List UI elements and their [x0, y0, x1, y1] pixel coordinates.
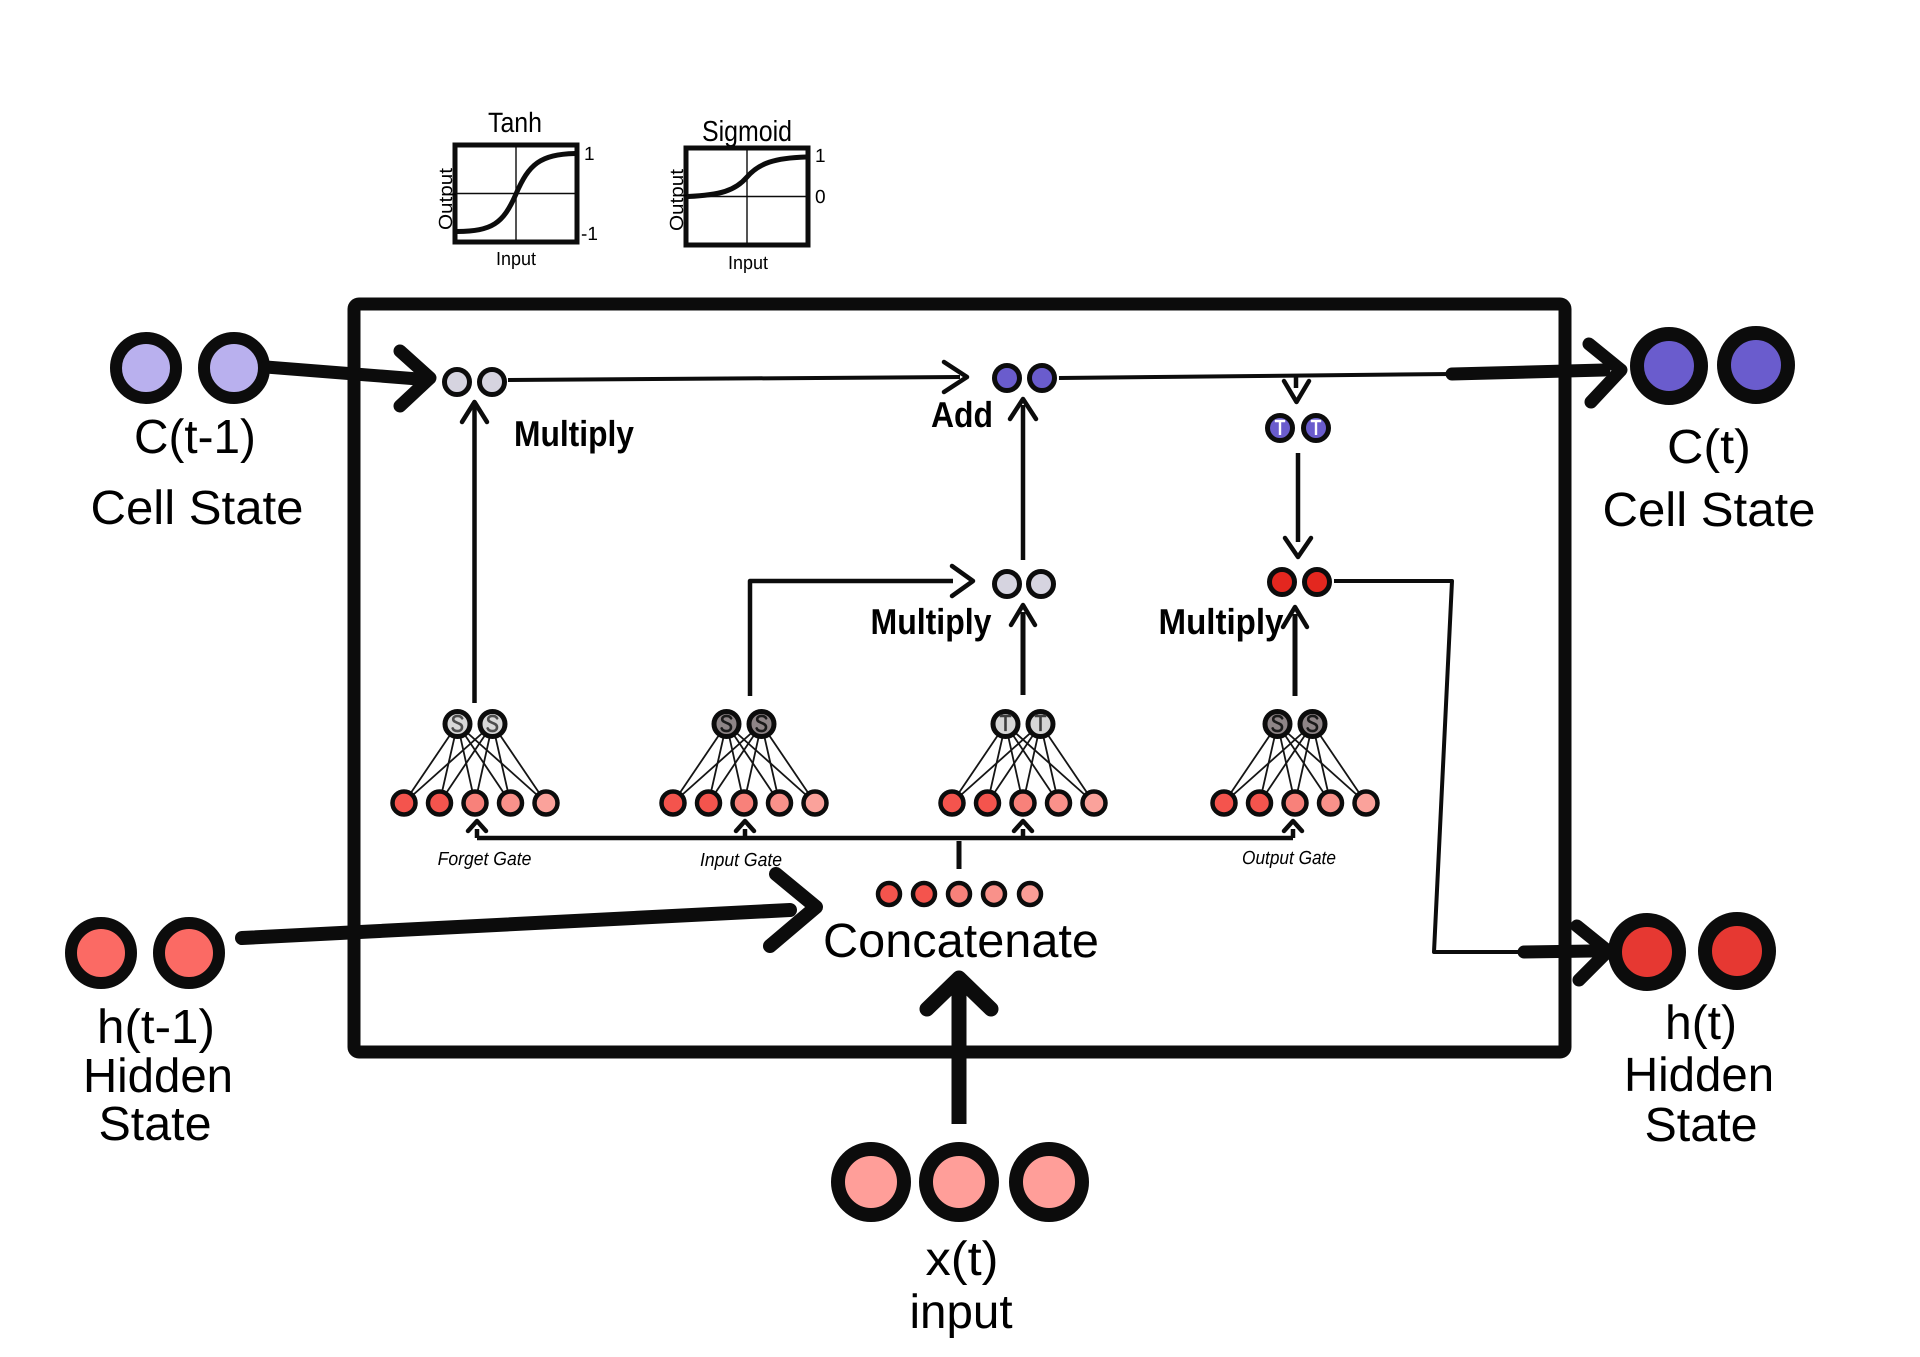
svg-text:Tanh: Tanh [488, 107, 542, 139]
wire multiply (input) up to Add [1010, 399, 1036, 560]
input gate fan wires [673, 724, 815, 803]
output gate input neurons [1213, 792, 1378, 815]
wire thick arrow exit to C(t) [1452, 344, 1621, 402]
wire Concatenate to gates bus [957, 841, 962, 869]
node Add circles [995, 366, 1055, 391]
wire tanh op down to multiply (output) [1285, 453, 1311, 557]
svg-text:Output: Output [436, 167, 457, 230]
forget gate fan wires [404, 724, 546, 803]
tanh activation graph [436, 107, 598, 270]
svg-text:Add: Add [931, 395, 993, 435]
wire Add to C(t) exit [1059, 374, 1452, 378]
forget gate input neurons [393, 792, 558, 815]
wire input gate elbow to multiply (input) [750, 566, 973, 696]
bus riser arrow to input gate [736, 821, 754, 838]
wire gates bus [477, 836, 1293, 841]
node multiply (forget) circles [445, 370, 505, 395]
svg-text:Forget Gate: Forget Gate [438, 847, 532, 869]
svg-text:x(t): x(t) [925, 1232, 998, 1286]
wire thick arrow C(t-1) into box [266, 351, 430, 406]
svg-text:C(t-1): C(t-1) [134, 411, 256, 464]
wire forget gate up to multiply [462, 402, 487, 703]
svg-text:Sigmoid: Sigmoid [702, 115, 792, 147]
wire tanh gate up to multiply (input) [1011, 605, 1035, 695]
node x(t) input circles [838, 1149, 1082, 1339]
candidate gate input neurons [941, 792, 1106, 815]
svg-text:Input: Input [496, 248, 536, 270]
wire red multiply to h(t) exit [1334, 581, 1524, 952]
node multiply (input) gray circles [995, 572, 1054, 597]
svg-text:h(t): h(t) [1665, 997, 1737, 1050]
forget gate sigmoid units S S [445, 712, 505, 737]
wire thick arrow exit to h(t) [1524, 926, 1608, 980]
node h(t-1) hidden state input circles [71, 923, 233, 1151]
svg-text:1: 1 [584, 144, 595, 165]
svg-text:Output: Output [667, 168, 688, 231]
svg-text:State: State [1644, 1098, 1757, 1152]
svg-text:h(t-1): h(t-1) [97, 1001, 215, 1054]
svg-text:0: 0 [815, 187, 826, 208]
node tanh op circles T T [1268, 416, 1329, 441]
output gate fan wires [1224, 724, 1366, 803]
svg-text:Hidden: Hidden [83, 1050, 233, 1103]
bus riser arrow to forget gate [468, 821, 486, 838]
svg-text:Input: Input [728, 252, 768, 274]
svg-text:Cell State: Cell State [90, 481, 303, 535]
LSTM cell main box [354, 304, 1565, 1052]
svg-text:Cell State: Cell State [1602, 483, 1815, 537]
node multiply (output) red circles [1270, 570, 1330, 595]
output gate sigmoid units S S [1265, 712, 1325, 737]
svg-text:-1: -1 [581, 224, 598, 245]
svg-text:Multiply: Multiply [871, 602, 992, 642]
candidate tanh gate fan wires [952, 724, 1094, 803]
svg-text:1: 1 [815, 146, 826, 167]
svg-text:Hidden: Hidden [1624, 1049, 1774, 1102]
input gate sigmoid units S S [714, 712, 774, 737]
node C(t) cell state output circles [1602, 333, 1815, 537]
candidate tanh units T T [993, 712, 1053, 737]
input gate input neurons [662, 792, 827, 815]
node Concatenate circles [823, 883, 1099, 968]
wire thick arrow x(t) up to Concatenate [927, 978, 991, 1124]
wire output gate up to red multiply [1283, 607, 1307, 696]
node h(t) hidden state output circles [1615, 919, 1774, 1152]
svg-text:Input Gate: Input Gate [700, 848, 782, 870]
node C(t-1) cell state input circles [90, 338, 303, 535]
svg-text:Output Gate: Output Gate [1242, 847, 1336, 868]
svg-text:Multiply: Multiply [514, 414, 634, 454]
bus riser arrow to output gate [1284, 821, 1302, 838]
svg-text:State: State [98, 1097, 211, 1151]
svg-text:C(t): C(t) [1667, 420, 1751, 474]
svg-text:input: input [909, 1286, 1012, 1339]
svg-text:Multiply: Multiply [1159, 603, 1285, 643]
sigmoid activation graph [667, 115, 826, 273]
wire junction arrow down to tanh units [1284, 376, 1309, 402]
wire thick arrow h(t-1) to Concatenate [242, 874, 816, 946]
wire multiply to Add [508, 362, 967, 392]
svg-text:Concatenate: Concatenate [823, 914, 1099, 968]
bus riser arrow to tanh gate [1014, 821, 1032, 838]
